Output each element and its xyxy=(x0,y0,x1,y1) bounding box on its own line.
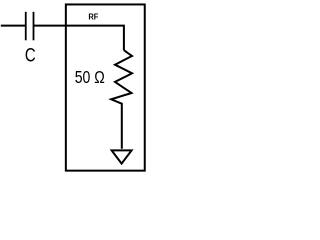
capacitor C left plate xyxy=(25,12,27,41)
wire capacitor to resistor xyxy=(34,26,124,51)
svg-text:50 Ω: 50 Ω xyxy=(75,67,105,87)
ground xyxy=(112,150,132,163)
capacitor C right plate xyxy=(33,12,35,41)
svg-text:RF: RF xyxy=(88,12,98,21)
svg-text:C: C xyxy=(25,44,36,66)
wire input xyxy=(1,25,26,27)
RF block box xyxy=(66,4,145,170)
resistor R1 zigzag 50 ohm xyxy=(111,50,132,149)
